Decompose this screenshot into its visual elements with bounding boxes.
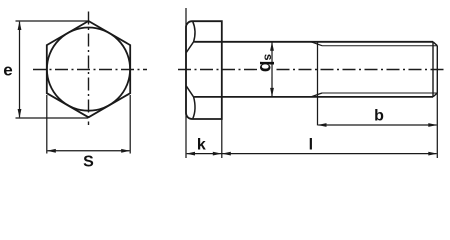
arrow b left: [318, 123, 327, 127]
thread end chamfer vertical: [432, 42, 434, 97]
thread runout diagonal top: [311, 42, 322, 46]
svg-text:S: S: [83, 154, 94, 171]
svg-text:l: l: [309, 137, 313, 154]
arrow S right: [121, 149, 130, 153]
head chamfer curve top: [186, 22, 195, 53]
k+l extension line at head-shank junction: [221, 119, 223, 158]
svg-text:e: e: [3, 61, 12, 80]
extension line S left: [46, 95, 48, 154]
ds dimension line: [271, 43, 273, 97]
vertical centerline: [88, 12, 90, 126]
thread root line top: [322, 45, 437, 47]
b extension line (full thread start): [317, 42, 319, 126]
horizontal centerline: [33, 69, 147, 71]
extension line bottom (e): [16, 117, 89, 119]
dimension line e: [19, 22, 21, 118]
inscribed circle: [47, 28, 130, 111]
arrow k right: [213, 152, 222, 156]
hexagon outline: [47, 21, 130, 117]
arrow e bottom: [18, 109, 22, 118]
chamfer diagonal bottom: [433, 93, 437, 97]
arrow ds top: [270, 42, 274, 51]
arrow ds bottom: [270, 88, 274, 97]
dimension line b: [318, 124, 436, 126]
svg-text:k: k: [197, 136, 206, 153]
dimension line S: [48, 150, 130, 152]
arrow l left: [222, 152, 231, 156]
thread root line bottom: [322, 92, 437, 94]
head chamfer curve bottom: [186, 86, 195, 118]
head outline: [186, 21, 222, 119]
k extension line left / head face axis line: [185, 8, 187, 158]
horizontal centerline: [178, 69, 444, 71]
bolt end face: [436, 46, 438, 93]
arrow l right: [428, 152, 437, 156]
extension line top (e): [16, 20, 89, 22]
arrow k left: [186, 152, 195, 156]
label ds background: [258, 52, 272, 77]
arrow S left: [47, 149, 56, 153]
arrow e top: [18, 21, 22, 30]
l+b extension line right: [436, 93, 438, 158]
shank/thread bottom outline: [194, 96, 433, 98]
thread runout diagonal bottom: [311, 93, 322, 97]
shank/thread top outline: [194, 41, 433, 43]
chamfer diagonal top: [433, 42, 437, 46]
dimension line k and l: [187, 153, 437, 155]
extension line S right: [129, 95, 131, 154]
svg-text:b: b: [374, 108, 384, 125]
arrow b right: [428, 123, 437, 127]
